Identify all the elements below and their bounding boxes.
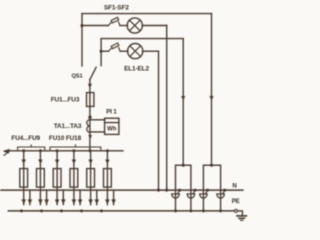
wire PE to earth bbox=[237, 211, 242, 216]
node socket N tap 3 bbox=[206, 189, 209, 192]
lamp EL2 bbox=[128, 44, 143, 59]
lamp EL1 bbox=[127, 18, 142, 33]
fuse FU1...FU3 bbox=[87, 93, 94, 107]
node feed joins bus bbox=[88, 149, 91, 152]
arrow N drop group 6 bbox=[111, 199, 116, 204]
svg-text:Wh: Wh bbox=[107, 126, 117, 132]
wire lamp1 return drop to N bus bbox=[166, 26, 168, 191]
node socket N tap 2 bbox=[194, 189, 197, 192]
fuse group fuse 2 bbox=[37, 169, 45, 188]
arrow flow mark above bus bbox=[88, 135, 92, 139]
wire group feeder 5 bbox=[90, 151, 92, 205]
wire second rail (socket feeder) bbox=[101, 38, 183, 40]
meter PI1 box bbox=[105, 118, 119, 134]
node socket PE tap 2 bbox=[189, 209, 192, 212]
socket outlet 2 bbox=[187, 193, 194, 195]
arrow flow mark feeder 2 bbox=[209, 96, 213, 101]
wire SF1 to EL1 bbox=[120, 25, 128, 27]
node PE tap bbox=[20, 209, 23, 212]
arrow N drop group 3 bbox=[61, 199, 66, 204]
arrow into fuse 3 bbox=[55, 160, 59, 165]
node PE tap bbox=[60, 209, 63, 212]
node PE tap bbox=[40, 209, 43, 212]
fuse group fuse 6 bbox=[104, 169, 112, 188]
node bus tap group 5 bbox=[106, 149, 109, 152]
socket outlet 1 bbox=[172, 193, 179, 195]
node socket PE tap 4 bbox=[219, 209, 222, 212]
wire group feeder 6 bbox=[106, 151, 108, 205]
switch SF2 bbox=[109, 48, 112, 51]
node socket PE tap 3 bbox=[202, 209, 205, 212]
arrow group line 2 out bbox=[38, 199, 43, 204]
node lamp1 return on N bus bbox=[165, 189, 168, 192]
node lamp2 return on N bus bbox=[157, 189, 160, 192]
svg-text:PE: PE bbox=[232, 198, 240, 205]
wire N drop group 5 bbox=[96, 190, 98, 205]
svg-text:SF1-SF2: SF1-SF2 bbox=[104, 4, 129, 11]
bracket FU4...FU9 group bbox=[18, 145, 45, 150]
node lamp1 branch junction bbox=[80, 24, 83, 27]
wire lamp2 return drop to N bus bbox=[158, 51, 160, 190]
arrow group line 6 out bbox=[105, 199, 110, 204]
bracket FU10...FU18 group bbox=[50, 145, 101, 150]
socket outlet 4 bbox=[217, 193, 224, 195]
arrow into fuse 5 bbox=[88, 160, 92, 165]
arrow N drop group 5 bbox=[95, 199, 100, 204]
wire top rail bbox=[82, 13, 212, 15]
wire socket loop 1 bbox=[176, 165, 191, 211]
wire feeder drop to socket group 2 bbox=[211, 14, 213, 166]
wire group feeder 2 bbox=[39, 151, 41, 205]
node bus tap group 3 bbox=[56, 149, 59, 152]
arrow N drop group 2 bbox=[44, 199, 49, 204]
arrow group line 3 out bbox=[55, 199, 60, 204]
wire N drop group 3 bbox=[62, 190, 64, 205]
node socket N tap 1 bbox=[178, 189, 181, 192]
fuse group fuse 1 bbox=[20, 169, 28, 188]
arrow bus continuation left bbox=[3, 149, 10, 154]
svg-text:EL1-EL2: EL1-EL2 bbox=[124, 65, 149, 72]
bus PE bbox=[8, 210, 234, 212]
svg-text:QS1: QS1 bbox=[71, 73, 82, 79]
svg-text:TA1...TA3: TA1...TA3 bbox=[54, 123, 82, 130]
wire lamp2 row left bbox=[101, 50, 109, 52]
wire QS1 main column bbox=[89, 80, 91, 151]
arrow N drop group 4 bbox=[78, 199, 83, 204]
arrow into fuse 4 bbox=[72, 160, 76, 165]
switch QS1 blade bbox=[90, 67, 96, 79]
svg-text:N: N bbox=[232, 182, 236, 189]
socket outlet 3 bbox=[200, 193, 207, 195]
node PE tap bbox=[100, 209, 103, 212]
svg-text:FU4...FU9: FU4...FU9 bbox=[11, 135, 40, 142]
fuse group fuse 3 bbox=[53, 169, 61, 188]
svg-text:PI 1: PI 1 bbox=[106, 109, 117, 116]
node bus tap group 4 bbox=[72, 149, 75, 152]
arrow group line 4 out bbox=[72, 199, 77, 204]
node feeder2 to loop2 bbox=[210, 164, 213, 167]
bus N bbox=[1, 189, 243, 191]
arrow into fuse 6 bbox=[105, 160, 109, 165]
wire N drop group 2 bbox=[46, 190, 48, 205]
svg-text:FU10 FU18: FU10 FU18 bbox=[49, 135, 82, 142]
bus main distribution bus bbox=[5, 150, 123, 152]
ground earth electrode bbox=[237, 215, 246, 217]
fuse group fuse 5 bbox=[87, 169, 95, 188]
wire EL1 to right corner bbox=[142, 25, 167, 27]
arrow group line 1 out bbox=[21, 199, 26, 204]
arrow N drop group 1 bbox=[28, 199, 33, 204]
node bus tap group 1 bbox=[22, 149, 25, 152]
wire N drop group 6 bbox=[113, 190, 115, 205]
wire lamp1 row left bbox=[82, 25, 108, 27]
arrow flow mark feeder 1 bbox=[181, 96, 185, 101]
wire N drop group 4 bbox=[79, 190, 81, 205]
arrow group line 5 out bbox=[88, 199, 93, 204]
node PE connection circle bbox=[234, 209, 237, 212]
wire group feeder 4 bbox=[73, 151, 75, 205]
wire feeder drop to socket group 1 bbox=[182, 39, 184, 166]
node socket N tap 4 bbox=[223, 189, 226, 192]
node meter voltage tap bbox=[88, 116, 91, 119]
wire meter voltage tap bbox=[90, 119, 105, 121]
node feeder1 to loop1 bbox=[182, 164, 185, 167]
arrow flow mark below QS1 bbox=[88, 84, 92, 89]
wire N drop group 1 bbox=[29, 190, 31, 205]
wire drop to QS1 top contact bbox=[100, 39, 102, 66]
fuse group fuse 4 bbox=[70, 169, 78, 188]
arrow into fuse 2 bbox=[38, 160, 42, 165]
wire left feeder drop bbox=[81, 14, 83, 66]
wire EL2 to right corner bbox=[143, 50, 159, 52]
svg-text:FU1...FU3: FU1...FU3 bbox=[51, 97, 80, 104]
wire socket loop 2 bbox=[203, 165, 220, 211]
node PE tap bbox=[80, 209, 83, 212]
wire group feeder 3 bbox=[56, 151, 58, 205]
node socket PE tap 1 bbox=[174, 209, 177, 212]
switch SF1 bbox=[108, 23, 111, 26]
node lamp2 branch junction bbox=[100, 50, 103, 53]
transformer TA1...TA3 bbox=[87, 120, 90, 133]
wire meter current tap bbox=[90, 131, 105, 133]
node bus tap group 2 bbox=[39, 149, 42, 152]
arrow into fuse 1 bbox=[22, 160, 26, 165]
wire SF2 to EL2 bbox=[120, 50, 128, 52]
wire group feeder 1 bbox=[23, 151, 25, 205]
